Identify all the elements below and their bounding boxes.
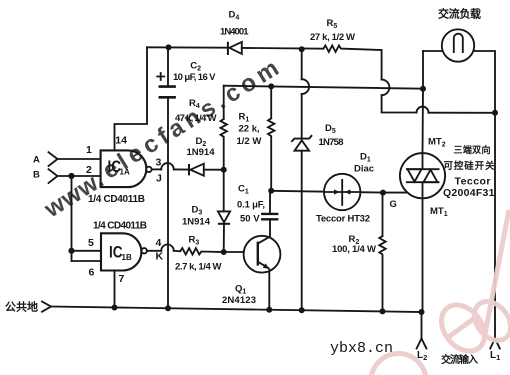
- svg-text:R1: R1: [239, 112, 250, 124]
- svg-text:C2: C2: [190, 61, 201, 73]
- svg-text:7: 7: [119, 273, 125, 285]
- svg-text:100, 1/4 W: 100, 1/4 W: [332, 244, 376, 255]
- svg-text:27 k, 1/2 W: 27 k, 1/2 W: [310, 32, 355, 43]
- svg-text:D3: D3: [192, 205, 203, 217]
- svg-text:1N914: 1N914: [187, 147, 216, 158]
- svg-text:L1: L1: [490, 350, 500, 362]
- svg-text:R3: R3: [189, 235, 200, 247]
- svg-text:三端双向: 三端双向: [454, 144, 491, 155]
- svg-text:1/2 W: 1/2 W: [237, 136, 262, 147]
- svg-text:5: 5: [88, 237, 94, 249]
- svg-text:10 μF, 16 V: 10 μF, 16 V: [173, 72, 216, 83]
- svg-text:0.1 μF,: 0.1 μF,: [237, 200, 265, 211]
- svg-text:交流输入: 交流输入: [441, 353, 478, 366]
- svg-text:交流负载: 交流负载: [438, 7, 481, 21]
- svg-text:Teccor HT32: Teccor HT32: [316, 214, 370, 225]
- svg-text:1N914: 1N914: [182, 217, 211, 228]
- svg-text:G: G: [390, 199, 397, 210]
- svg-text:可控硅开关: 可控硅开关: [444, 160, 495, 172]
- svg-text:R5: R5: [327, 18, 338, 30]
- svg-text:A: A: [33, 155, 40, 166]
- svg-text:Q1: Q1: [235, 284, 246, 296]
- svg-text:1N4001: 1N4001: [220, 27, 249, 38]
- svg-text:J: J: [156, 173, 162, 185]
- svg-text:2.7 k, 1/4 W: 2.7 k, 1/4 W: [175, 262, 222, 273]
- svg-text:1: 1: [86, 144, 92, 156]
- svg-text:2N4123: 2N4123: [222, 295, 256, 306]
- svg-text:C1: C1: [238, 184, 249, 196]
- svg-text:22 k,: 22 k,: [239, 124, 260, 135]
- svg-text:D5: D5: [325, 123, 336, 135]
- svg-text:ybx8.cn: ybx8.cn: [330, 340, 393, 357]
- svg-text:MT2: MT2: [428, 137, 446, 149]
- svg-text:MT1: MT1: [430, 206, 448, 218]
- svg-text:K: K: [156, 251, 164, 263]
- svg-text:公共地: 公共地: [5, 300, 38, 314]
- svg-text:D4: D4: [229, 10, 240, 22]
- svg-text:3: 3: [156, 157, 162, 169]
- svg-text:Q2004F31: Q2004F31: [443, 187, 495, 199]
- svg-text:6: 6: [89, 266, 95, 278]
- svg-text:Teccor: Teccor: [455, 176, 491, 188]
- svg-text:D1: D1: [360, 152, 371, 164]
- svg-text:50 V: 50 V: [240, 214, 260, 225]
- svg-text:1/4 CD4011B: 1/4 CD4011B: [93, 221, 147, 232]
- svg-text:B: B: [33, 170, 40, 181]
- svg-text:1B: 1B: [122, 253, 132, 262]
- svg-text:4: 4: [156, 237, 162, 249]
- svg-text:1N758: 1N758: [319, 137, 344, 148]
- svg-text:Diac: Diac: [354, 164, 374, 175]
